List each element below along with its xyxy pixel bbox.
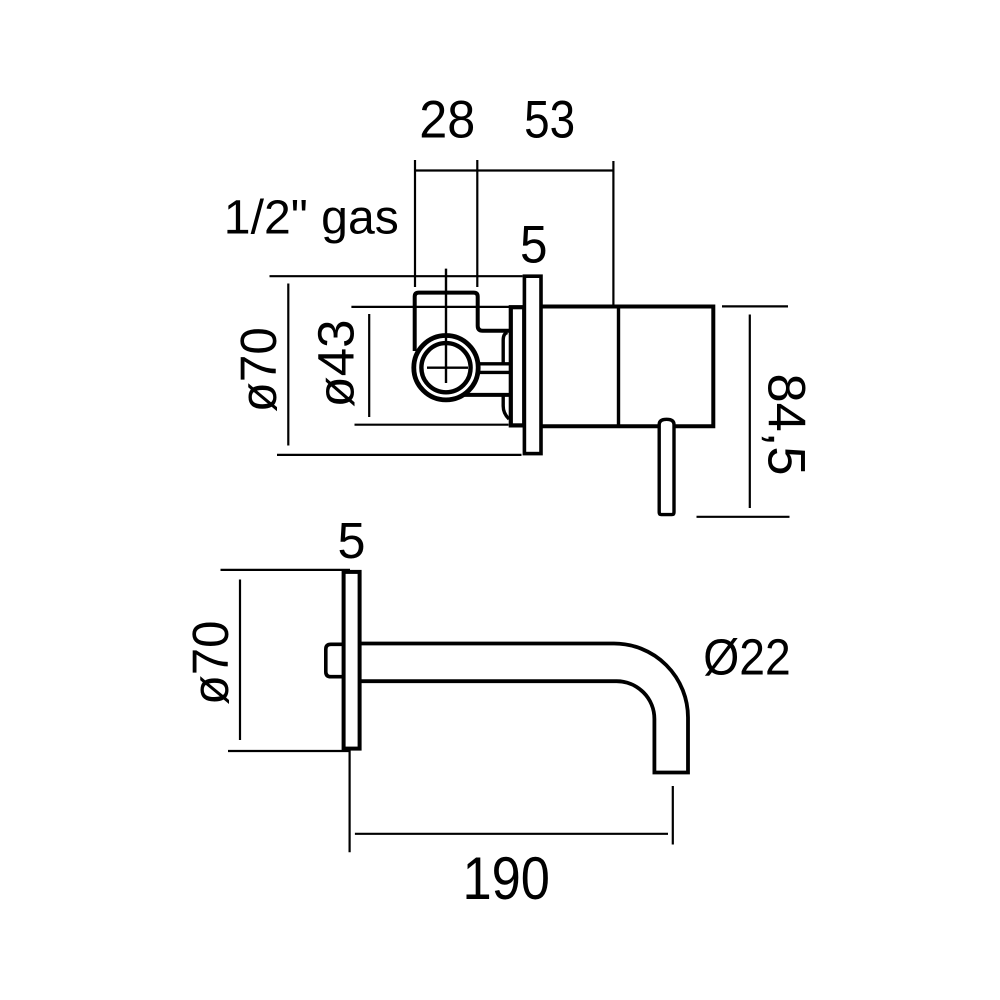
svg-text:ø70: ø70 xyxy=(230,327,287,412)
svg-text:190: 190 xyxy=(462,845,550,912)
svg-text:84,5: 84,5 xyxy=(757,374,816,476)
svg-text:53: 53 xyxy=(524,90,575,149)
svg-text:28: 28 xyxy=(419,90,475,149)
svg-text:ø43: ø43 xyxy=(308,320,365,408)
svg-text:5: 5 xyxy=(520,216,548,275)
svg-text:ø70: ø70 xyxy=(182,621,239,706)
svg-text:1/2" gas: 1/2" gas xyxy=(224,192,399,245)
svg-text:5: 5 xyxy=(338,512,366,569)
svg-text:Ø22: Ø22 xyxy=(703,629,791,686)
